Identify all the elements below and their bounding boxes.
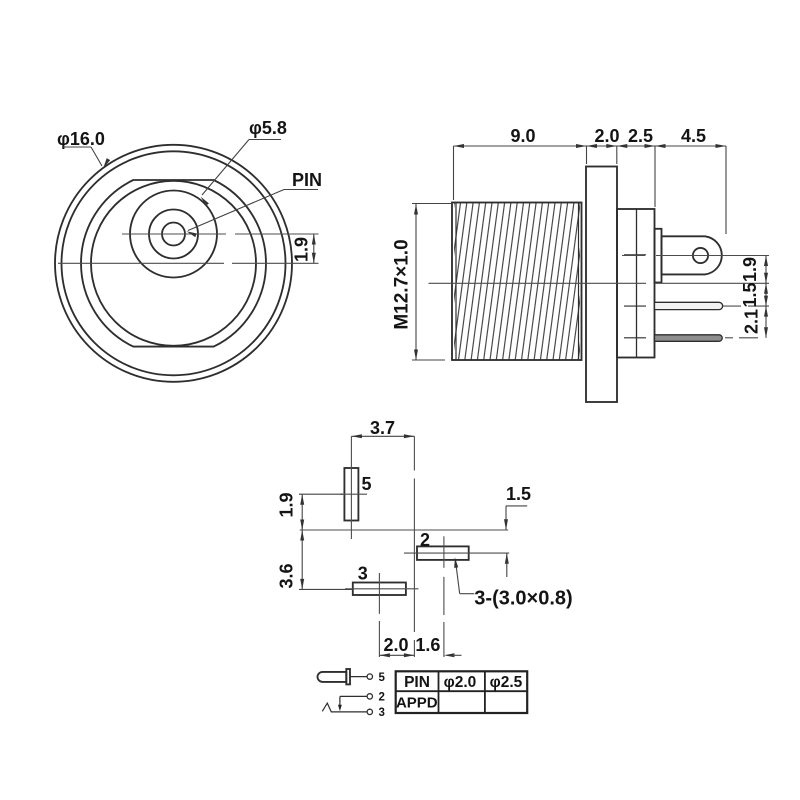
- extension line at barrel bottom-left: [412, 359, 445, 361]
- side view: rear body inner line: [636, 209, 638, 358]
- svg-text:PIN: PIN: [404, 674, 430, 691]
- dimension 3.6 (footprint): [301, 530, 303, 589]
- svg-text:5: 5: [379, 672, 386, 684]
- svg-text:1.5: 1.5: [740, 282, 760, 307]
- symbol: wire of terminal 3 with spring contact: [322, 703, 367, 712]
- table: column divider 2: [484, 671, 486, 713]
- svg-text:5: 5: [361, 474, 371, 494]
- svg-text:4.5: 4.5: [681, 126, 706, 146]
- table: outer border: [396, 671, 528, 713]
- footprint: pin2 horizontal centerline: [404, 552, 509, 554]
- svg-text:3.6: 3.6: [277, 563, 297, 588]
- extension line at flange left: [586, 146, 588, 164]
- footprint: main horizontal axis: [300, 529, 509, 531]
- side view: pin2 centerline dashes: [725, 337, 733, 339]
- symbol: plug barrel: [318, 672, 347, 682]
- svg-text:2.1: 2.1: [742, 309, 762, 334]
- symbol: terminal 5 circle: [367, 674, 372, 679]
- svg-text:2.0: 2.0: [383, 635, 408, 655]
- front view: inner bore circle: [91, 181, 256, 346]
- extension line at barrel top-left: [412, 203, 453, 205]
- svg-text:1.9: 1.9: [277, 492, 297, 517]
- svg-text:M12.7×1.0: M12.7×1.0: [392, 239, 413, 329]
- footprint: slot for pin 3: [353, 583, 406, 596]
- footprint: long vertical axis of pin2 column: [413, 436, 415, 470]
- extension line at tab right: [725, 146, 727, 234]
- symbol: switch arrow of terminal 2: [338, 705, 342, 712]
- svg-text:φ2.5: φ2.5: [490, 674, 523, 691]
- svg-text:φ2.0: φ2.0: [444, 674, 477, 691]
- svg-text:3: 3: [358, 564, 368, 584]
- svg-text:2: 2: [379, 692, 385, 704]
- dimension M12.7x1.0 vertical line: [415, 204, 417, 360]
- footprint: slot for pin 5: [344, 468, 358, 521]
- front view: threaded bushing circle with top/bottom flats: [81, 180, 266, 347]
- side view: center terminal solder tab with hole: [662, 236, 722, 274]
- symbol: wire to terminal 5: [350, 676, 367, 678]
- front view: contact opening circle dia 5.8: [130, 191, 217, 278]
- side view: bottom solder pin (filled): [655, 335, 723, 342]
- table: column divider 1: [438, 671, 440, 713]
- front view: center pin circle: [162, 223, 185, 246]
- side view: rear body tick at tab level: [624, 254, 646, 256]
- arrows of top dimensions: [454, 144, 465, 148]
- front view: center pin collar circle: [149, 210, 198, 259]
- side view: rear body tick at pin2 level: [624, 337, 646, 339]
- footprint: pin5 vertical centerline: [350, 436, 352, 539]
- dimension 3.7: [351, 435, 414, 437]
- svg-text:φ16.0: φ16.0: [57, 129, 105, 149]
- svg-text:2: 2: [420, 530, 430, 550]
- symbol: terminal 3 circle: [367, 709, 372, 714]
- side view: rear insulator body: [617, 209, 655, 358]
- symbol: wire of terminal 2: [340, 695, 367, 697]
- side view: middle solder pin (hollow): [655, 302, 723, 309]
- svg-text:3: 3: [379, 707, 385, 719]
- dimension 1.9: pin offset, front view: [313, 234, 315, 263]
- footprint: pin3 vertical centerline: [378, 573, 380, 614]
- svg-text:1.9: 1.9: [292, 237, 312, 262]
- extension line at barrel left: [453, 146, 455, 200]
- front view: inner ring of bezel: [62, 151, 286, 375]
- svg-text:φ5.8: φ5.8: [249, 118, 287, 138]
- svg-text:APPD: APPD: [396, 695, 438, 712]
- dimension 2.0 / 1.6 (footprint): [379, 654, 414, 656]
- side view: center terminal stem: [655, 229, 662, 283]
- front view: horizontal centerline: [58, 262, 224, 264]
- footprint: pin2 vertical centerline: [443, 536, 445, 568]
- svg-text:1.9: 1.9: [740, 257, 760, 282]
- side view: tab centerline: [622, 255, 645, 257]
- symbol: terminal 2 circle: [367, 694, 372, 699]
- svg-text:3.7: 3.7: [370, 418, 395, 438]
- footprint: pin5 horizontal centerline: [340, 493, 367, 495]
- svg-text:2.5: 2.5: [628, 126, 653, 146]
- extension line at flange right: [616, 146, 618, 164]
- front view: pin centerline: [122, 233, 226, 235]
- svg-text:PIN: PIN: [292, 170, 322, 190]
- symbol: plug flange bar: [346, 669, 350, 684]
- top dimension line 9.0 / 2.0 / 2.5 / 4.5: [454, 145, 727, 147]
- side view: main centerline: [429, 282, 647, 284]
- svg-text:1.5: 1.5: [506, 484, 531, 504]
- svg-text:2.0: 2.0: [594, 126, 619, 146]
- footprint: pin3 horizontal centerline: [345, 588, 419, 590]
- svg-text:1.6: 1.6: [415, 635, 440, 655]
- right side dimension line 1.9/1.5/2.1: [765, 256, 767, 338]
- side view: mounting flange: [586, 167, 617, 403]
- extension line at body right: [654, 146, 656, 207]
- svg-text:9.0: 9.0: [510, 126, 535, 146]
- table: row divider: [396, 690, 528, 692]
- svg-text:3-(3.0×0.8): 3-(3.0×0.8): [474, 588, 572, 610]
- side view: rear body tick at pin1 level: [624, 305, 646, 307]
- front view: outer ring of jack, dia 16.0: [55, 145, 292, 382]
- dimension 1.9 (footprint): [301, 494, 303, 530]
- footprint: slot for pin 2: [417, 546, 469, 560]
- side view: pin1 centerline dashes: [723, 305, 741, 307]
